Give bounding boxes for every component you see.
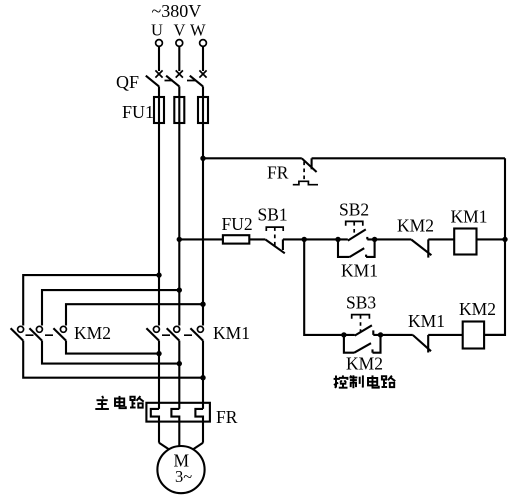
contactor KM2 interlock contact (NC) bbox=[411, 239, 431, 257]
node SB3 right bbox=[378, 332, 383, 337]
node L2 branch to KM2 contact 2 bbox=[177, 287, 182, 292]
node SB2 right bbox=[372, 237, 377, 242]
FR heater element 2 bbox=[171, 409, 179, 446]
wire SB3 right to KM1 NC bbox=[373, 334, 413, 336]
wire KM2 contact2 output crossover to L2 bbox=[42, 341, 179, 364]
svg-text:SB1: SB1 bbox=[258, 205, 288, 225]
wire control right rail bbox=[484, 158, 505, 335]
wire U terminal to QF bbox=[158, 47, 160, 72]
wire motor lead left diagonal bbox=[159, 443, 169, 450]
node control branch junction bbox=[302, 237, 307, 242]
svg-text:FR: FR bbox=[267, 162, 289, 182]
pushbutton SB3 (reverse start, NO) bbox=[352, 315, 374, 336]
wire L1 phase line bbox=[158, 97, 160, 326]
fuse FU1 pole 2 bbox=[174, 97, 184, 123]
wire control top rail left bbox=[203, 157, 302, 159]
fuse FU1 pole 1 bbox=[154, 97, 164, 123]
breaker QF linkage dashes bbox=[165, 80, 196, 82]
label 主电路 bbox=[95, 396, 143, 409]
node SB2 left bbox=[335, 237, 340, 242]
node L3 control tap bbox=[200, 156, 205, 161]
wire W terminal to QF bbox=[202, 47, 204, 72]
wire KM2 contact1 output crossover to L3 bbox=[23, 341, 203, 378]
wire L3 to KM2 contact 3 bbox=[66, 304, 203, 325]
wire L2 tap to FU2 bbox=[179, 238, 223, 240]
wire QF to FU1 pole3 bbox=[202, 86, 204, 97]
terminal U bbox=[156, 40, 163, 47]
wire coil KM2 to right rail bbox=[484, 334, 505, 336]
svg-text:SB2: SB2 bbox=[339, 200, 369, 220]
svg-text:~380V: ~380V bbox=[152, 1, 202, 21]
node crossover on L1 bbox=[156, 351, 161, 356]
svg-text:U: U bbox=[151, 21, 163, 40]
svg-text:KM1: KM1 bbox=[451, 207, 488, 227]
svg-text:FU2: FU2 bbox=[222, 214, 253, 234]
FR heater element 1 bbox=[151, 409, 159, 443]
svg-text:W: W bbox=[190, 21, 206, 40]
svg-text:KM1: KM1 bbox=[408, 311, 445, 331]
contactor KM1 holding contact (NO) bbox=[338, 239, 375, 257]
motor M circle bbox=[157, 446, 204, 493]
contactor KM1 main contact 2 bbox=[167, 326, 180, 340]
terminal W bbox=[200, 40, 207, 47]
wire KM1 NC to coil KM2 bbox=[428, 334, 463, 336]
fuse FU1 pole 3 bbox=[198, 97, 208, 123]
wire L2 phase line bbox=[178, 97, 180, 326]
svg-text:KM2: KM2 bbox=[459, 299, 496, 319]
thermal relay FR heater box bbox=[146, 403, 210, 422]
FR heater element 3 bbox=[195, 409, 203, 443]
label 控制电路 bbox=[334, 375, 396, 388]
wire KM2 NC to coil KM1 bbox=[428, 238, 454, 240]
wire control top rail right bbox=[312, 157, 505, 159]
breaker QF pole 1 bbox=[146, 70, 163, 86]
contactor KM1 main contact 3 bbox=[190, 326, 203, 340]
wire SB2 right to KM2 NC bbox=[367, 238, 411, 240]
thermal relay FR NC contact bbox=[293, 158, 318, 184]
coil KM1 bbox=[454, 229, 476, 255]
svg-text:FR: FR bbox=[216, 407, 238, 427]
contactor KM1 main contact 1 bbox=[146, 326, 159, 340]
node SB3 left bbox=[341, 332, 346, 337]
terminal V bbox=[176, 40, 183, 47]
node L1 branch to KM2 contact 1 bbox=[156, 272, 161, 277]
node crossover on L2 bbox=[177, 361, 182, 366]
breaker QF pole 2 bbox=[166, 70, 183, 86]
svg-text:KM1: KM1 bbox=[341, 261, 378, 281]
wire FU2 to SB1 bbox=[249, 238, 265, 240]
node crossover on L3 bbox=[200, 375, 205, 380]
wire SB1 to SB2 bbox=[283, 238, 348, 240]
wire QF to FU1 pole1 bbox=[158, 86, 160, 97]
wire QF to FU1 pole2 bbox=[178, 86, 180, 97]
fuse FU2 bbox=[223, 235, 249, 243]
svg-text:3~: 3~ bbox=[175, 467, 192, 486]
svg-text:FU1: FU1 bbox=[122, 102, 154, 122]
wire motor lead right diagonal bbox=[193, 443, 203, 450]
contactor KM1 linkage dashes bbox=[162, 334, 192, 336]
svg-text:KM2: KM2 bbox=[346, 353, 383, 373]
contactor KM2 holding contact (NO) bbox=[344, 335, 381, 353]
wire coil KM1 to right rail bbox=[477, 238, 506, 240]
node right rail row1 bbox=[502, 237, 507, 242]
svg-text:QF: QF bbox=[116, 72, 139, 92]
wire L1 KM1 contact to FR bbox=[158, 341, 160, 409]
coil KM2 bbox=[463, 322, 484, 349]
wire KM2 contact3 output crossover to L1 bbox=[66, 341, 159, 354]
svg-text:KM2: KM2 bbox=[397, 216, 434, 236]
wire L2 to KM2 contact 2 bbox=[42, 290, 179, 325]
contactor KM2 main contact 1 bbox=[11, 326, 24, 340]
breaker QF pole 3 bbox=[190, 70, 207, 86]
pushbutton SB2 (start, NO) bbox=[346, 221, 368, 240]
node L2 control tap bbox=[177, 237, 182, 242]
contactor KM1 interlock contact (NC) bbox=[413, 335, 431, 353]
pushbutton SB1 (stop, NC) bbox=[265, 227, 284, 253]
svg-text:KM1: KM1 bbox=[213, 323, 250, 343]
wire L2 KM1 contact to FR bbox=[178, 341, 180, 409]
svg-text:SB3: SB3 bbox=[346, 292, 376, 312]
wire L3 phase line bbox=[202, 97, 204, 326]
contactor KM2 main contact 3 bbox=[53, 326, 66, 340]
wire left control rail down bbox=[304, 239, 355, 335]
wire L3 KM1 contact to FR bbox=[202, 341, 204, 409]
wire L1 to KM2 contact 1 bbox=[23, 275, 159, 325]
svg-text:KM2: KM2 bbox=[74, 323, 111, 343]
wire V terminal to QF bbox=[178, 47, 180, 72]
contactor KM2 main contact 2 bbox=[29, 326, 42, 340]
contactor KM2 linkage dashes bbox=[26, 334, 54, 336]
node L3 branch to KM2 contact 3 bbox=[200, 302, 205, 307]
svg-text:V: V bbox=[174, 21, 186, 40]
